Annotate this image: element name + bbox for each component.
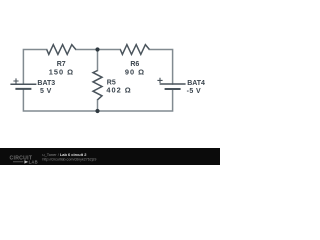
svg-text:90 Ω: 90 Ω — [125, 68, 145, 77]
svg-text:BAT4: BAT4 — [187, 80, 205, 87]
svg-text:u_Toner / Lab 6 circuit 2: u_Toner / Lab 6 circuit 2 — [42, 152, 87, 157]
svg-text:150 Ω: 150 Ω — [49, 68, 74, 77]
svg-text:402 Ω: 402 Ω — [106, 85, 131, 94]
svg-text:BAT3: BAT3 — [37, 80, 55, 87]
svg-text:http://circuitlab.com/c6nyk276: http://circuitlab.com/c6nyk2762jz9 — [42, 158, 96, 162]
svg-text:LAB: LAB — [29, 160, 38, 165]
svg-text:5 V: 5 V — [40, 88, 52, 95]
svg-text:-5 V: -5 V — [187, 88, 201, 95]
